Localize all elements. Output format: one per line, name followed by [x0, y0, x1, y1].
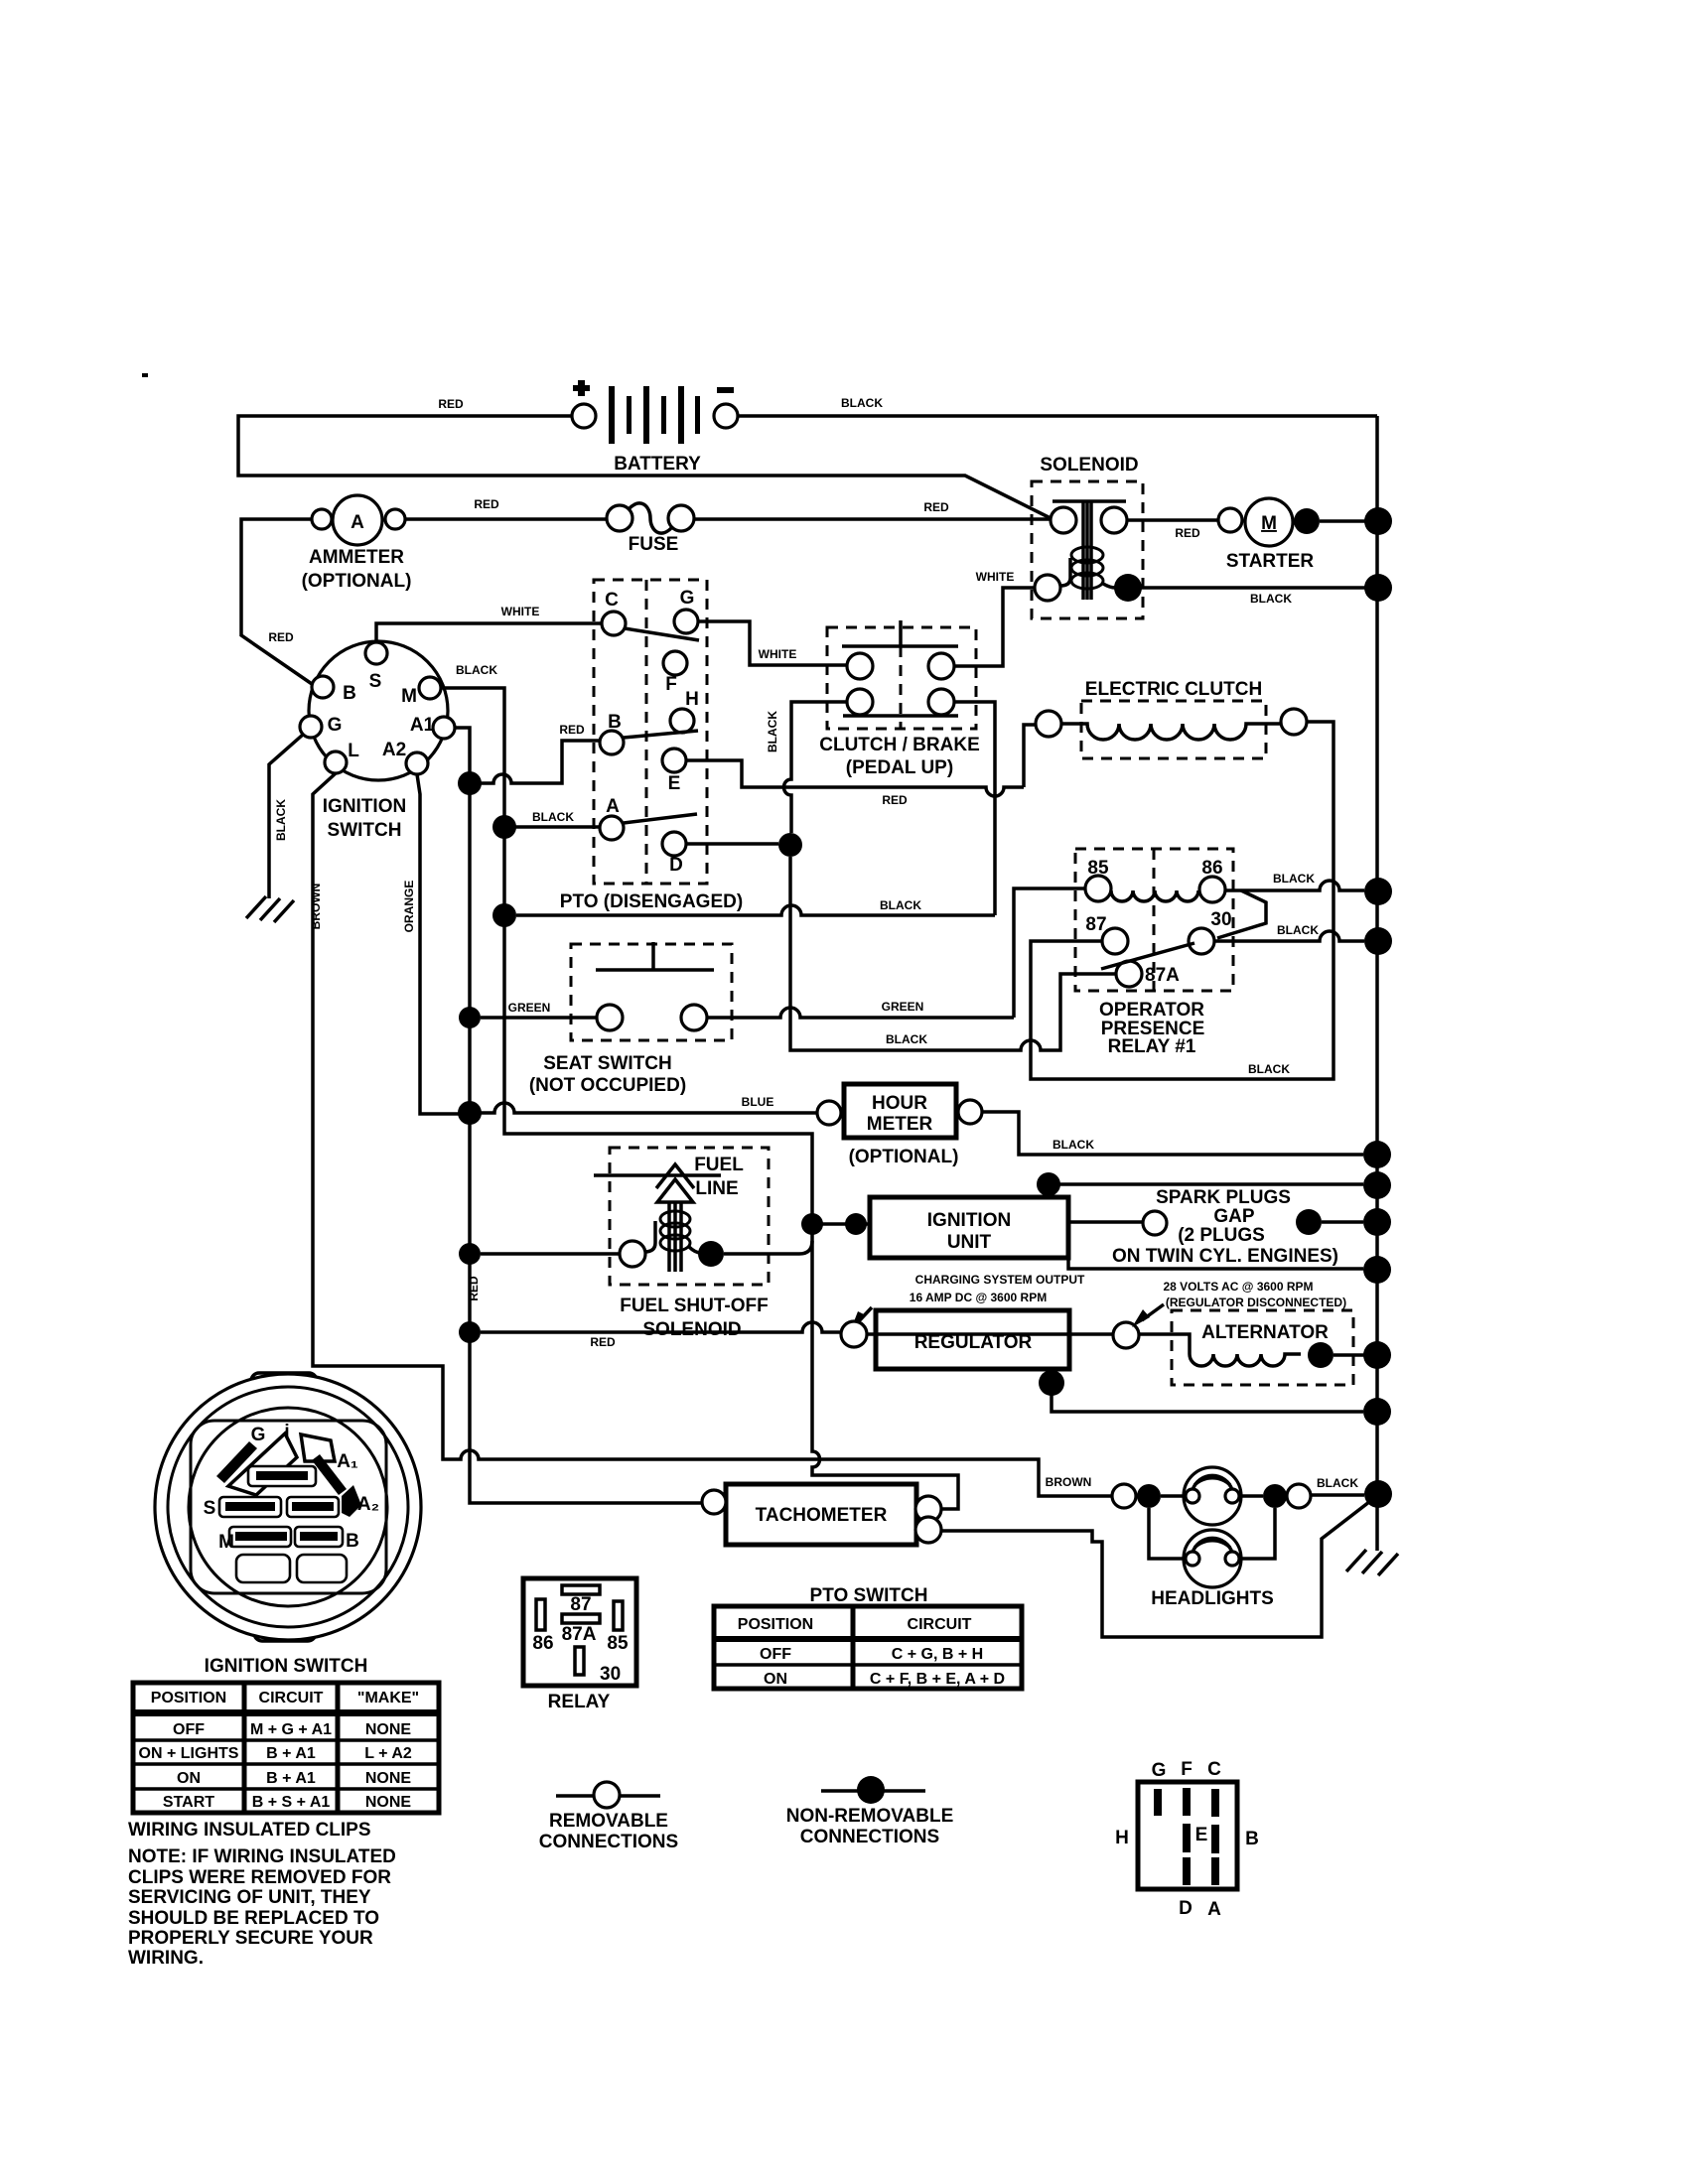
svg-text:OFF: OFF: [173, 1721, 205, 1738]
svg-text:BLACK: BLACK: [532, 810, 574, 824]
svg-text:BLUE: BLUE: [742, 1095, 774, 1109]
svg-text:S: S: [369, 671, 382, 692]
svg-text:CIRCUIT: CIRCUIT: [908, 1616, 972, 1633]
svg-text:HEADLIGHTS: HEADLIGHTS: [1151, 1588, 1274, 1609]
svg-text:B + A1: B + A1: [266, 1745, 316, 1762]
svg-text:RED: RED: [268, 630, 294, 644]
svg-text:FUEL: FUEL: [694, 1155, 744, 1175]
svg-text:BLACK: BLACK: [1273, 872, 1315, 886]
svg-text:ON: ON: [764, 1671, 787, 1688]
svg-text:L + A2: L + A2: [364, 1745, 412, 1762]
svg-text:CLUTCH / BRAKE: CLUTCH / BRAKE: [819, 735, 980, 755]
svg-text:B: B: [343, 683, 356, 704]
svg-text:H: H: [685, 689, 699, 710]
svg-text:86: 86: [532, 1633, 553, 1654]
svg-text:CLIPS WERE REMOVED FOR: CLIPS WERE REMOVED FOR: [128, 1867, 391, 1888]
svg-text:PTO SWITCH: PTO SWITCH: [810, 1585, 928, 1606]
svg-text:ALTERNATOR: ALTERNATOR: [1201, 1322, 1329, 1343]
svg-text:BLACK: BLACK: [1052, 1138, 1094, 1152]
svg-text:(PEDAL UP): (PEDAL UP): [846, 757, 953, 778]
svg-text:PROPERLY SECURE YOUR: PROPERLY SECURE YOUR: [128, 1928, 373, 1949]
svg-text:WHITE: WHITE: [759, 647, 797, 661]
svg-text:BLACK: BLACK: [1248, 1062, 1290, 1076]
svg-text:87: 87: [570, 1594, 591, 1615]
svg-text:GAP: GAP: [1213, 1206, 1255, 1227]
svg-text:START: START: [163, 1794, 214, 1811]
svg-text:BLACK: BLACK: [456, 663, 497, 677]
svg-text:OPERATOR: OPERATOR: [1099, 1000, 1204, 1021]
svg-text:M: M: [218, 1532, 234, 1553]
svg-text:RED: RED: [882, 793, 908, 807]
svg-text:C + G, B + H: C + G, B + H: [892, 1646, 983, 1663]
svg-text:BLACK: BLACK: [880, 898, 921, 912]
svg-text:SHOULD BE REPLACED TO: SHOULD BE REPLACED TO: [128, 1908, 379, 1929]
svg-text:UNIT: UNIT: [947, 1232, 992, 1253]
svg-text:B + A1: B + A1: [266, 1770, 316, 1787]
svg-text:FUSE: FUSE: [629, 534, 679, 555]
svg-text:M + G + A1: M + G + A1: [250, 1721, 332, 1738]
svg-text:BATTERY: BATTERY: [614, 454, 701, 475]
svg-text:BLACK: BLACK: [886, 1032, 927, 1046]
svg-text:(OPTIONAL): (OPTIONAL): [302, 571, 412, 592]
svg-text:CONNECTIONS: CONNECTIONS: [539, 1832, 678, 1852]
svg-text:POSITION: POSITION: [151, 1690, 226, 1706]
svg-text:RELAY: RELAY: [548, 1692, 611, 1712]
svg-text:NONE: NONE: [365, 1770, 412, 1787]
svg-text:SWITCH: SWITCH: [328, 820, 402, 841]
svg-text:AMMETER: AMMETER: [309, 547, 404, 568]
svg-text:RED: RED: [559, 723, 585, 737]
svg-text:C: C: [1207, 1759, 1221, 1780]
svg-text:G: G: [251, 1425, 266, 1445]
svg-text:SEAT SWITCH: SEAT SWITCH: [543, 1053, 671, 1074]
svg-text:NONE: NONE: [365, 1721, 412, 1738]
svg-text:B: B: [1245, 1829, 1259, 1849]
svg-text:ON: ON: [177, 1770, 201, 1787]
svg-text:30: 30: [600, 1664, 621, 1685]
svg-text:LINE: LINE: [695, 1178, 738, 1199]
svg-text:BROWN: BROWN: [1046, 1475, 1092, 1489]
svg-text:F: F: [665, 674, 677, 695]
svg-text:GREEN: GREEN: [508, 1001, 551, 1015]
svg-text:SPARK PLUGS: SPARK PLUGS: [1156, 1187, 1291, 1208]
svg-text:RED: RED: [467, 1276, 481, 1301]
svg-text:WHITE: WHITE: [976, 570, 1015, 584]
svg-text:30: 30: [1210, 909, 1231, 930]
svg-text:86: 86: [1201, 858, 1222, 879]
svg-text:RED: RED: [590, 1335, 616, 1349]
svg-text:BLACK: BLACK: [766, 711, 779, 752]
svg-text:M: M: [1261, 513, 1277, 534]
svg-text:RED: RED: [1175, 526, 1200, 540]
svg-text:CONNECTIONS: CONNECTIONS: [800, 1827, 939, 1847]
svg-text:STARTER: STARTER: [1226, 551, 1315, 572]
svg-text:C + F, B + E, A + D: C + F, B + E, A + D: [870, 1671, 1005, 1688]
svg-text:ELECTRIC CLUTCH: ELECTRIC CLUTCH: [1085, 679, 1262, 700]
svg-text:(REGULATOR DISCONNECTED): (REGULATOR DISCONNECTED): [1166, 1296, 1346, 1309]
svg-text:CIRCUIT: CIRCUIT: [259, 1690, 324, 1706]
svg-text:B + S + A1: B + S + A1: [252, 1794, 331, 1811]
svg-text:NOTE: IF WIRING INSULATED: NOTE: IF WIRING INSULATED: [128, 1846, 396, 1867]
svg-text:L: L: [348, 741, 359, 761]
svg-text:HOUR: HOUR: [872, 1093, 927, 1114]
svg-text:85: 85: [1087, 858, 1109, 879]
svg-text:C: C: [605, 590, 619, 611]
svg-text:NON-REMOVABLE: NON-REMOVABLE: [786, 1806, 954, 1827]
svg-text:85: 85: [607, 1633, 629, 1654]
svg-text:D: D: [1179, 1898, 1193, 1919]
svg-text:REMOVABLE: REMOVABLE: [549, 1811, 668, 1832]
svg-text:A2: A2: [382, 740, 406, 760]
svg-text:B: B: [346, 1531, 359, 1552]
svg-text:SOLENOID: SOLENOID: [1040, 455, 1138, 476]
svg-text:SOLENOID: SOLENOID: [642, 1319, 741, 1340]
svg-text:A: A: [1207, 1899, 1221, 1920]
svg-text:(NOT OCCUPIED): (NOT OCCUPIED): [529, 1075, 686, 1096]
svg-text:FUEL SHUT-OFF: FUEL SHUT-OFF: [620, 1296, 769, 1316]
svg-text:87A: 87A: [562, 1624, 597, 1645]
svg-text:(OPTIONAL): (OPTIONAL): [849, 1147, 959, 1167]
svg-text:E: E: [1195, 1825, 1208, 1845]
svg-text:ON + LIGHTS: ON + LIGHTS: [139, 1745, 239, 1762]
svg-text:RED: RED: [923, 500, 949, 514]
svg-text:87A: 87A: [1145, 965, 1180, 986]
svg-text:IGNITION: IGNITION: [927, 1210, 1011, 1231]
svg-text:OFF: OFF: [760, 1646, 791, 1663]
svg-text:SERVICING OF UNIT, THEY: SERVICING OF UNIT, THEY: [128, 1887, 371, 1908]
svg-text:G: G: [328, 715, 343, 736]
svg-text:WIRING.: WIRING.: [128, 1948, 204, 1969]
svg-text:RELAY #1: RELAY #1: [1108, 1036, 1196, 1057]
svg-text:WIRING INSULATED CLIPS: WIRING INSULATED CLIPS: [128, 1820, 371, 1841]
svg-text:16 AMP DC @ 3600 RPM: 16 AMP DC @ 3600 RPM: [910, 1291, 1047, 1304]
svg-text:GREEN: GREEN: [882, 1000, 924, 1014]
svg-text:RED: RED: [438, 397, 464, 411]
svg-text:BLACK: BLACK: [274, 799, 288, 841]
svg-text:BLACK: BLACK: [1277, 923, 1319, 937]
svg-text:IGNITION SWITCH: IGNITION SWITCH: [205, 1656, 368, 1677]
svg-text:M: M: [401, 686, 417, 707]
svg-text:BLACK: BLACK: [1317, 1476, 1358, 1490]
svg-text:A: A: [351, 512, 364, 533]
svg-text:(2 PLUGS: (2 PLUGS: [1178, 1225, 1265, 1246]
svg-text:E: E: [668, 773, 681, 794]
svg-text:PTO (DISENGAGED): PTO (DISENGAGED): [560, 891, 743, 912]
svg-text:TACHOMETER: TACHOMETER: [756, 1505, 888, 1526]
svg-text:B: B: [608, 712, 622, 733]
svg-text:A₂: A₂: [357, 1494, 379, 1515]
svg-text:A1: A1: [410, 715, 435, 736]
svg-text:G: G: [1152, 1760, 1167, 1781]
svg-text:IGNITION: IGNITION: [323, 796, 406, 817]
svg-text:i: i: [284, 1422, 289, 1442]
svg-text:RED: RED: [474, 497, 499, 511]
svg-text:NONE: NONE: [365, 1794, 412, 1811]
svg-text:S: S: [204, 1498, 216, 1519]
svg-text:BLACK: BLACK: [841, 396, 883, 410]
svg-text:"MAKE": "MAKE": [357, 1690, 419, 1706]
svg-text:METER: METER: [867, 1114, 933, 1135]
svg-text:G: G: [680, 588, 695, 609]
svg-text:POSITION: POSITION: [738, 1616, 813, 1633]
svg-text:WHITE: WHITE: [501, 605, 540, 618]
svg-text:BLACK: BLACK: [1250, 592, 1292, 606]
svg-text:D: D: [669, 855, 683, 876]
svg-text:BROWN: BROWN: [309, 884, 323, 930]
svg-text:F: F: [1181, 1759, 1193, 1780]
svg-text:87: 87: [1085, 914, 1106, 935]
svg-text:A₁: A₁: [337, 1451, 358, 1472]
svg-text:A: A: [606, 796, 620, 817]
svg-text:CHARGING SYSTEM OUTPUT: CHARGING SYSTEM OUTPUT: [915, 1273, 1085, 1287]
svg-text:ORANGE: ORANGE: [402, 881, 416, 933]
svg-text:H: H: [1115, 1828, 1129, 1848]
svg-text:ON TWIN CYL. ENGINES): ON TWIN CYL. ENGINES): [1112, 1246, 1338, 1267]
svg-text:28 VOLTS AC @ 3600 RPM: 28 VOLTS AC @ 3600 RPM: [1163, 1280, 1313, 1294]
